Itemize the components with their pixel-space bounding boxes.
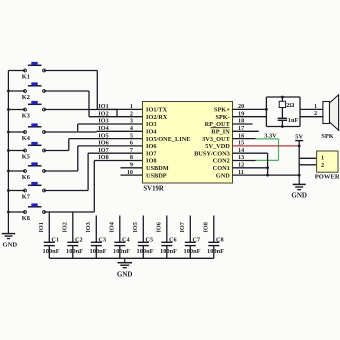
- node bus junction K5: [7, 149, 10, 152]
- wire K4 to IO4: [44, 130, 97, 133]
- svg-text:RP_IN: RP_IN: [211, 129, 230, 136]
- svg-text:3V3_OUT: 3V3_OUT: [202, 136, 230, 143]
- svg-text:100nF: 100nF: [137, 248, 154, 255]
- wire bus to K1: [8, 70, 25, 72]
- resistor 2 ohm zobel: [279, 97, 294, 118]
- wire K6 to IO6: [44, 146, 78, 171]
- svg-text:C1: C1: [52, 237, 60, 244]
- svg-text:IO6: IO6: [98, 140, 108, 147]
- node gnd rail junction right: [298, 174, 301, 177]
- wire K5 to IO5: [44, 139, 69, 151]
- pushbutton K4: [22, 123, 46, 142]
- pushbutton K8: [22, 203, 46, 222]
- svg-text:1: 1: [321, 154, 324, 161]
- pushbutton K6: [22, 162, 46, 181]
- svg-text:IO5: IO5: [132, 222, 139, 232]
- svg-text:C2: C2: [75, 237, 83, 244]
- svg-text:IO5/ONE_LINE: IO5/ONE_LINE: [146, 136, 190, 143]
- svg-text:2: 2: [321, 162, 324, 169]
- capacitor 1uF zobel: [278, 117, 299, 127]
- pin 14 number: [238, 147, 244, 154]
- svg-text:IO2: IO2: [61, 222, 68, 232]
- svg-text:1: 1: [314, 103, 317, 110]
- pushbutton K2: [22, 82, 46, 101]
- wire K1 to IO1: [44, 71, 97, 110]
- svg-text:POWER: POWER: [315, 174, 340, 181]
- svg-text:IO2/RX: IO2/RX: [146, 114, 168, 121]
- wire 3.3V net (green): [256, 139, 279, 161]
- svg-text:RP_OUT: RP_OUT: [205, 121, 231, 128]
- svg-text:IO3: IO3: [98, 118, 108, 125]
- wire stub IO3 branch: [77, 124, 79, 131]
- svg-text:SPK-: SPK-: [215, 114, 229, 121]
- wire zobel to speaker pin 2: [300, 110, 323, 117]
- connector POWER: [315, 151, 340, 181]
- capacitor C2 100nF: [61, 212, 83, 258]
- svg-text:5V: 5V: [295, 134, 303, 141]
- svg-text:K2: K2: [22, 94, 30, 101]
- node bus junction K6: [7, 170, 10, 173]
- wire pin14 BUSY/CON3 to gnd net: [233, 153, 268, 175]
- svg-text:C4: C4: [122, 237, 130, 244]
- pin 19 number: [238, 110, 244, 117]
- svg-text:K3: K3: [22, 113, 30, 120]
- wire bus to K5: [8, 150, 25, 152]
- svg-text:100nF: 100nF: [160, 248, 177, 255]
- power symbol 5V: [295, 134, 303, 146]
- wire zobel network frame: [266, 97, 300, 127]
- wire 5V to POWER pin 1: [299, 146, 316, 158]
- wire K2 to IO2: [44, 91, 89, 117]
- wire K8 to IO8: [44, 161, 94, 213]
- capacitor C7 100nF: [179, 216, 201, 259]
- svg-text:2: 2: [130, 110, 133, 117]
- wire node IO4 to pin 4: [97, 125, 143, 132]
- pushbutton K3: [22, 101, 46, 120]
- wire POWER pin 2 to gnd: [299, 158, 316, 175]
- svg-text:CON1: CON1: [213, 165, 230, 172]
- svg-text:2: 2: [314, 110, 317, 117]
- node bus junction K8: [7, 211, 10, 214]
- wire pin 9 stub: [121, 162, 143, 169]
- svg-text:IO8: IO8: [202, 222, 209, 232]
- svg-text:IO1: IO1: [98, 103, 108, 110]
- capacitor C4 100nF: [108, 216, 130, 259]
- ground (power): [291, 175, 307, 199]
- svg-text:SV19R: SV19R: [143, 186, 163, 193]
- wire bus to K4: [8, 131, 25, 133]
- node zobel top tap: [281, 96, 284, 99]
- svg-text:K5: K5: [22, 154, 30, 161]
- svg-text:IO3: IO3: [85, 222, 92, 232]
- node 5V junction: [298, 145, 301, 148]
- capacitor C6 100nF: [155, 216, 177, 259]
- svg-text:8: 8: [130, 154, 133, 161]
- node bus junction K3: [7, 108, 10, 111]
- pin 20 number: [238, 103, 244, 110]
- capacitor C5 100nF: [132, 216, 154, 259]
- svg-text:K7: K7: [22, 194, 30, 201]
- svg-text:SPK: SPK: [321, 133, 333, 140]
- svg-text:IO6: IO6: [155, 222, 162, 232]
- svg-text:5: 5: [130, 132, 133, 139]
- node bus junction K2: [7, 90, 10, 93]
- svg-text:GND: GND: [117, 271, 133, 279]
- svg-text:GND: GND: [216, 172, 230, 179]
- svg-text:C7: C7: [193, 237, 201, 244]
- svg-text:BUSY/CON3: BUSY/CON3: [194, 150, 230, 157]
- svg-text:IO6: IO6: [146, 143, 157, 150]
- pin 12 number: [238, 162, 244, 169]
- svg-text:100nF: 100nF: [66, 248, 83, 255]
- svg-text:100nF: 100nF: [113, 248, 130, 255]
- svg-text:GND: GND: [291, 191, 307, 199]
- capacitor C3 100nF: [85, 216, 107, 259]
- svg-text:CON2: CON2: [213, 158, 230, 165]
- svg-text:C3: C3: [99, 237, 107, 244]
- svg-text:IO7: IO7: [179, 222, 186, 232]
- svg-text:IO8: IO8: [98, 154, 108, 161]
- speaker SPK: [321, 95, 338, 140]
- svg-text:USBDP: USBDP: [146, 172, 167, 179]
- svg-text:C5: C5: [146, 237, 154, 244]
- svg-text:100nF: 100nF: [90, 248, 107, 255]
- svg-text:IO2: IO2: [98, 110, 108, 117]
- node zobel left junction: [265, 108, 268, 111]
- svg-text:C6: C6: [169, 237, 177, 244]
- pin 16 number: [238, 132, 244, 139]
- svg-text:IO1: IO1: [38, 222, 45, 232]
- svg-text:USBDM: USBDM: [146, 165, 169, 172]
- svg-text:IO7: IO7: [98, 147, 108, 154]
- node CON1 junction: [266, 166, 269, 169]
- wire node IO5 to pin 5: [69, 132, 143, 139]
- svg-text:IO8: IO8: [146, 158, 157, 165]
- wire pin20 SPK+ to zobel: [233, 108, 267, 110]
- svg-text:IO4: IO4: [146, 129, 157, 136]
- wire node IO2 to pin 2: [89, 110, 143, 117]
- wire pin16 3V3_OUT: [233, 138, 256, 140]
- wire node IO7 to pin 7: [88, 147, 142, 154]
- node zobel bottom tap: [281, 125, 284, 128]
- svg-text:6: 6: [130, 140, 133, 147]
- wire node IO1 to pin 1: [97, 103, 142, 110]
- node bus junction K4: [7, 131, 10, 134]
- svg-text:9: 9: [130, 162, 133, 169]
- pushbutton K5: [22, 142, 46, 161]
- svg-text:100nF: 100nF: [43, 248, 60, 255]
- wire K7 to IO7: [44, 153, 88, 190]
- wire pin19 SPK- to zobel: [233, 116, 267, 118]
- svg-text:K4: K4: [22, 135, 31, 142]
- svg-text:7: 7: [130, 147, 133, 154]
- wire node IO3 to pin 3: [78, 118, 143, 125]
- ground (capacitor bank): [117, 258, 133, 278]
- wire pin12 CON1 to gnd net: [233, 167, 268, 169]
- wire K3 to node IO2: [44, 110, 117, 117]
- svg-text:IO1/TX: IO1/TX: [146, 107, 167, 114]
- pushbutton K1: [22, 62, 46, 81]
- svg-text:1: 1: [130, 103, 133, 110]
- capacitor C1 100nF: [38, 212, 60, 258]
- wire bus to K7: [8, 190, 25, 192]
- wire bus to K2: [8, 90, 25, 92]
- svg-text:5V_VDD: 5V_VDD: [205, 143, 230, 150]
- svg-text:10: 10: [127, 169, 133, 176]
- wire pin15 5V_VDD (red): [233, 145, 300, 147]
- svg-text:IO4: IO4: [108, 222, 115, 232]
- svg-text:K1: K1: [22, 74, 30, 81]
- svg-text:GND: GND: [2, 241, 17, 248]
- svg-text:4: 4: [130, 125, 133, 132]
- svg-text:IO7: IO7: [146, 150, 157, 157]
- svg-text:1uF: 1uF: [288, 117, 299, 124]
- wire bus to K8: [8, 211, 25, 213]
- node bus junction K7: [7, 189, 10, 192]
- svg-text:3: 3: [130, 118, 133, 125]
- wire pin11 GND rail: [233, 174, 300, 176]
- svg-text:100nF: 100nF: [184, 248, 201, 255]
- svg-text:C8: C8: [216, 237, 224, 244]
- wire zobel to speaker pin 1: [300, 103, 323, 110]
- node gnd rail junction left: [266, 174, 269, 177]
- pin 11 number: [238, 169, 244, 176]
- pin 13 number: [238, 154, 244, 161]
- wire bus to K6: [8, 170, 25, 172]
- svg-text:3.3V: 3.3V: [264, 133, 277, 140]
- wire pin17 RP_IN stub: [233, 130, 259, 132]
- IC U1 SV19R voice chip: [143, 102, 233, 193]
- svg-text:IO4: IO4: [98, 125, 108, 132]
- ground (left bus): [2, 232, 18, 249]
- pin 15 number: [238, 140, 244, 147]
- svg-text:K8: K8: [22, 215, 30, 222]
- capacitor C8 100nF: [202, 216, 224, 259]
- wire pin 10 stub: [121, 169, 143, 176]
- wire node IO8 to pin 8: [94, 154, 142, 161]
- svg-text:IO5: IO5: [98, 132, 108, 139]
- svg-text:2Ω: 2Ω: [286, 102, 294, 109]
- wire bus to K3: [8, 109, 25, 111]
- node 3.3V rail label: [264, 133, 277, 140]
- pin 18 number: [238, 118, 244, 125]
- svg-text:IO3: IO3: [146, 121, 157, 128]
- wire capacitor gnd rail: [49, 257, 214, 259]
- pushbutton K7: [22, 182, 46, 201]
- wire left GND bus: [7, 71, 9, 232]
- wire pin13 CON2: [233, 159, 256, 161]
- wire node IO6 to pin 6: [78, 140, 143, 147]
- svg-text:SPK+: SPK+: [214, 107, 230, 114]
- svg-text:K6: K6: [22, 174, 30, 181]
- wire pin18 RP_OUT stub: [233, 123, 253, 125]
- svg-text:100nF: 100nF: [207, 248, 224, 255]
- pin 17 number: [238, 125, 244, 132]
